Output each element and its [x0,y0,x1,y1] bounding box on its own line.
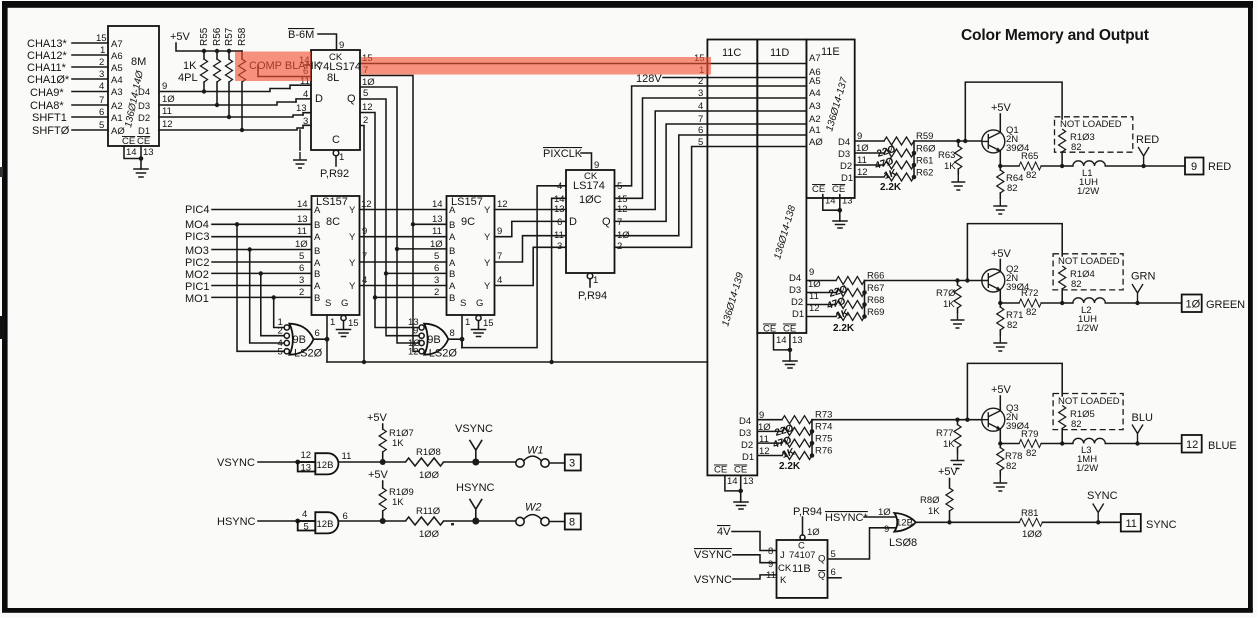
svg-text:1ØØ: 1ØØ [419,470,440,481]
signal SHFT0 [32,120,108,137]
svg-text:11C: 11C [722,47,741,59]
join vertical of R73-R76 [811,420,813,456]
svg-text:1K: 1K [944,161,956,172]
resistor R107 1K [379,428,414,462]
wire 8L Q15 to 11C A7 (COMP BLANK delayed) [360,53,707,64]
svg-text:8M: 8M [131,56,146,68]
wire 10C Q7 up to bus A2 [615,124,708,221]
nand gate 9B-1 LS20 [278,317,323,360]
pullup rail to resistors [204,50,242,52]
connector output 12 BLUE [1182,435,1237,453]
svg-text:9: 9 [884,524,889,535]
svg-text:R73: R73 [815,410,832,421]
resistor R75 1K [782,434,832,448]
svg-text:D3: D3 [838,149,850,160]
svg-text:11: 11 [432,226,442,237]
svg-text:R79: R79 [1021,429,1038,440]
svg-text:R77: R77 [936,428,953,439]
svg-text:3: 3 [303,116,308,127]
emitter wire Q2 [999,290,1001,303]
net VSYNC* into J [694,549,776,563]
svg-text:D1: D1 [792,309,804,320]
resistor R64 82 to ground [993,166,1023,214]
svg-text:1Ø: 1Ø [162,94,175,105]
svg-text:W2: W2 [525,502,542,514]
svg-text:SHFT1: SHFT1 [32,112,67,124]
+5V at R109 [368,469,389,488]
IC 11D column 136014-138 [757,40,806,334]
signal CHA12* [27,45,108,62]
svg-text:R11Ø: R11Ø [416,506,441,517]
svg-text:2: 2 [617,241,622,252]
svg-text:6: 6 [99,107,104,118]
wire MO2 to gate pin2 [261,273,284,335]
svg-text:12B: 12B [317,519,334,530]
svg-text:R56: R56 [212,27,223,46]
10C pin labels left [554,181,565,252]
svg-text:B: B [449,220,455,231]
svg-text:6: 6 [434,263,439,274]
svg-text:R61: R61 [916,156,933,167]
svg-text:B: B [449,293,455,304]
svg-text:136Ø14-139: 136Ø14-139 [720,271,746,328]
signal MO2 [185,263,311,281]
ground at 8M [134,159,148,178]
svg-text:1K: 1K [392,497,404,508]
resistor R74 470 [782,422,832,436]
svg-text:5: 5 [698,137,703,148]
emitter wire Q1 [999,151,1001,166]
svg-text:12: 12 [162,119,173,130]
A labels inside 11E [809,53,823,148]
net HSYNC* [825,512,895,524]
svg-text:HSYNC*: HSYNC* [825,512,869,524]
ground at 11E CE [833,210,847,228]
svg-text:1K: 1K [943,439,955,450]
IC U8L 74LS174 body [311,50,361,150]
svg-text:B: B [449,246,455,257]
base wire to Q2 [865,280,982,282]
svg-text:12: 12 [1186,439,1198,451]
svg-text:A5: A5 [111,63,123,74]
signal PIC1 [185,275,311,293]
jumper W2 [516,502,565,526]
svg-text:CE: CE [714,465,727,476]
wire 11B Q to LS08 pin 9 [828,528,896,559]
svg-text:3: 3 [698,88,703,99]
svg-text:4: 4 [497,275,502,286]
svg-text:13: 13 [301,463,312,474]
svg-text:2.2K: 2.2K [779,461,801,472]
svg-text:S: S [460,298,466,309]
svg-text:11E: 11E [821,46,840,58]
svg-text:6: 6 [299,263,304,274]
svg-text:8C: 8C [326,216,340,228]
9C G pin 15 [476,315,494,329]
svg-text:3: 3 [434,275,439,286]
IC U8M body 136014-140 [108,26,159,147]
resistor R65 82 [1000,151,1062,181]
svg-text:4: 4 [302,509,307,520]
resistor R78 82 to ground [993,444,1022,492]
svg-text:8: 8 [569,517,575,529]
sheet border frame [2,1,1253,8]
signal MO3 [185,239,311,257]
svg-text:Y: Y [484,258,491,269]
svg-text:CHA9*: CHA9* [30,87,64,99]
svg-text:13: 13 [432,214,443,225]
svg-text:LS157: LS157 [451,196,483,208]
svg-text:1/2W: 1/2W [1077,186,1099,197]
svg-text:CE: CE [812,184,825,195]
svg-text:B: B [314,269,320,280]
resistor R76 2.2K [782,446,832,460]
svg-text:R69: R69 [867,307,884,318]
resistor R56 [212,27,223,107]
svg-text:B: B [314,220,320,231]
resistor R58 [237,27,248,132]
svg-text:82: 82 [1007,320,1018,331]
svg-text:A3: A3 [111,87,123,98]
svg-text:4: 4 [698,101,703,112]
svg-text:14: 14 [297,199,308,210]
svg-text:A1: A1 [111,113,123,124]
svg-text:D4: D4 [739,416,751,427]
ground at 11C CE [734,491,748,509]
connector output 11 SYNC [1121,514,1177,532]
signal PIC2 [185,251,311,269]
svg-text:NOT LOADED: NOT LOADED [1060,119,1122,130]
svg-text:14: 14 [825,196,836,207]
svg-text:A6: A6 [111,51,123,62]
resistor R80 1K [920,488,953,524]
wire 11E D4 row [855,140,884,142]
connector output 10 GREEN [1182,295,1245,313]
svg-text:R75: R75 [815,434,832,445]
svg-text:A: A [314,258,321,269]
wire 8L Q7 vert to gate2 pin12 [413,224,419,351]
svg-text:4: 4 [303,89,308,100]
net VSYNC into K [694,574,776,586]
wire 8C Y12 to 9C A14 [360,199,447,210]
svg-text:D3: D3 [138,101,150,112]
svg-text:R68: R68 [867,295,884,306]
svg-text:1K: 1K [928,506,940,517]
svg-text:R6Ø: R6Ø [916,144,936,155]
svg-text:Y: Y [349,281,356,292]
scan mark left edge small [0,167,3,177]
resistor R71 82 to ground [993,303,1023,351]
wire 8L Q12 down [360,102,375,297]
resistor R61 1K [884,156,933,170]
svg-text:SYNC: SYNC [1087,490,1118,502]
emitter wire Q3 [999,429,1001,443]
svg-text:1Ø: 1Ø [295,239,308,250]
svg-text:W1: W1 [527,445,544,457]
svg-text:D: D [569,216,577,228]
svg-text:VSYNC: VSYNC [694,574,732,586]
svg-text:BLU: BLU [1132,412,1153,424]
gate LS08 output wire to sync line [916,521,1020,523]
resistor R66 220 [836,271,884,285]
svg-text:8: 8 [450,328,455,339]
svg-text:Color Memory and Output: Color Memory and Output [961,27,1149,44]
svg-text:9: 9 [339,40,344,51]
svg-text:RED: RED [1208,161,1231,173]
wire 11C D3 row [757,430,782,432]
svg-text:MO4: MO4 [185,219,209,231]
9C S pin 1 [462,315,470,348]
svg-text:R62: R62 [916,168,933,179]
svg-text:1: 1 [593,275,598,286]
svg-text:2: 2 [434,287,439,298]
IC U11B 74107 flip-flop [766,540,836,598]
wire 8M D3 into 8L pin 4 [296,89,311,102]
transistor Q1 2N3904 [982,125,1029,154]
svg-text:1: 1 [339,152,344,163]
wire MO3 to gate pin4 [250,250,285,344]
svg-text:3: 3 [299,275,304,286]
resistor R72 82 [1000,288,1062,318]
svg-text:Y: Y [484,205,491,216]
svg-text:PIC3: PIC3 [185,231,209,243]
connector output 9 RED [1185,158,1231,175]
wire 10C Q10 up to bus A1 [615,135,708,236]
svg-text:7: 7 [99,95,104,106]
svg-text:NOT LOADED: NOT LOADED [1058,256,1120,267]
svg-text:11D: 11D [770,47,789,59]
wire MO1 to gate pin1 [274,297,285,327]
svg-text:1Ø: 1Ø [362,77,375,88]
svg-text:9: 9 [594,160,599,171]
wire 11D D4 row [806,280,836,282]
svg-text:R55: R55 [199,27,210,46]
svg-text:9C: 9C [461,216,475,228]
svg-text:4PL: 4PL [178,72,198,84]
label P,R94 at 11B [793,506,822,540]
svg-text:S: S [325,298,331,309]
svg-text:Q: Q [602,216,611,228]
svg-text:MO3: MO3 [185,245,209,257]
10C clock pin 1 circle [587,273,598,287]
IC U9C LS157 body [447,196,495,315]
svg-text:13: 13 [297,214,308,225]
svg-text:4: 4 [557,181,562,192]
svg-text:B: B [314,293,320,304]
+5V at Q2 [991,248,1012,272]
svg-text:Q: Q [818,570,825,581]
svg-text:A2: A2 [809,114,821,125]
resistor R62 2.2K [884,168,933,182]
svg-text:2.2K: 2.2K [880,182,902,193]
svg-text:+5V: +5V [991,248,1012,260]
svg-text:11: 11 [162,106,172,117]
svg-text:3: 3 [569,458,575,470]
11E CE pins [812,184,853,213]
svg-text:+5V: +5V [938,466,959,478]
base wire to Q1 [914,140,982,142]
svg-text:1/2W: 1/2W [1076,463,1098,474]
wire gate 9B-1 output to 8C S [314,339,328,362]
testpoint SYNC [1087,490,1118,525]
8C G pin 15 [341,315,359,329]
signal CHA8* [30,95,108,112]
svg-text:13: 13 [743,476,754,487]
svg-text:HSYNC: HSYNC [456,482,495,494]
wire select line up to 10C pin14 [552,198,566,362]
nand gate 9B-2 LS20 [408,317,457,360]
signal CHA10* [27,69,108,86]
svg-text:+5V: +5V [367,412,388,424]
10C pin labels right [617,181,630,252]
svg-text:1: 1 [465,317,470,328]
svg-text:14: 14 [432,199,443,210]
address lines across 11C 11D to 11E [707,64,806,147]
svg-text:82: 82 [1026,307,1037,318]
svg-text:VSYNC: VSYNC [217,457,255,469]
svg-text:C: C [332,134,340,146]
svg-text:+5V: +5V [991,384,1012,396]
svg-text:Q: Q [347,93,356,105]
wire 8M D2 into 8L pin 13 [296,103,311,115]
ground at 8C G [337,330,351,337]
wire 8L Q5 vert to gate2 pin9 [386,273,419,335]
wire 8M D3 [159,102,296,105]
svg-text:5: 5 [299,251,304,262]
svg-text:2.2K: 2.2K [833,323,855,334]
not loaded resistor R103 82 [1055,117,1133,166]
resistor R109 1K [379,487,414,521]
11E D outputs [838,131,869,184]
stub 8L Q12 into 9C B2 [373,287,447,300]
svg-text:SHFTØ: SHFTØ [32,125,70,137]
svg-text:6: 6 [315,328,320,339]
+5V supply label [170,31,204,51]
svg-text:B-6M: B-6M [288,29,314,41]
+5V at Q3 [991,384,1012,411]
svg-text:82: 82 [1007,183,1018,194]
signal CHA9* [30,81,108,99]
svg-text:A7: A7 [809,53,821,64]
wire 9C Y7 to 10C pin11 [495,236,567,262]
svg-text:CHA13*: CHA13* [27,38,67,50]
svg-text:82: 82 [1006,461,1017,472]
svg-text:Y: Y [484,232,491,243]
resistor R60 470 [884,144,936,158]
svg-text:+5V: +5V [991,102,1012,114]
wire 10C Q5 up to bus A5 [615,86,708,186]
svg-text:PIC2: PIC2 [185,257,209,269]
svg-text:2: 2 [363,115,368,126]
svg-text:14: 14 [727,476,738,487]
svg-text:D4: D4 [138,87,150,98]
svg-text:RED: RED [1136,134,1159,146]
IC 11E column 136014-137 [806,40,854,199]
svg-text:K: K [780,575,787,586]
svg-text:LS157: LS157 [316,196,348,208]
svg-text:R1Ø8: R1Ø8 [416,447,441,458]
svg-text:R58: R58 [237,27,248,46]
svg-text:4: 4 [99,81,104,92]
ground at 8L pin3 wire [293,130,307,168]
svg-text:3: 3 [557,241,562,252]
svg-text:R8Ø: R8Ø [920,495,940,506]
svg-text:9: 9 [1191,161,1197,173]
svg-text:SYNC: SYNC [1146,519,1177,531]
svg-text:8: 8 [768,546,773,557]
svg-text:D3: D3 [789,285,801,296]
svg-text:Y: Y [484,281,491,292]
svg-text:9: 9 [497,226,502,237]
svg-text:9: 9 [362,226,367,237]
net B-6M [288,29,344,51]
svg-text:A5: A5 [809,76,821,87]
svg-text:MO2: MO2 [185,269,209,281]
svg-text:CE: CE [832,184,845,195]
svg-text:D2: D2 [741,440,753,451]
and gate 12B LS08 [878,507,917,549]
svg-text:D1: D1 [841,173,853,184]
highlighter band left (COMP BLANK) [235,52,311,82]
svg-text:D2: D2 [791,297,803,308]
svg-text:128V: 128V [636,73,662,85]
svg-text:1ØØ: 1ØØ [1022,529,1043,540]
svg-text:1: 1 [330,317,335,328]
stub 8L Q7 into 9C B13 [411,214,447,227]
svg-text:A: A [449,258,456,269]
svg-text:12B: 12B [896,518,913,529]
svg-text:7: 7 [497,251,502,262]
svg-text:1K: 1K [183,60,197,72]
signal SHFT1 [32,107,108,124]
wire 8L Q12 vert to gate2 pin13 [375,297,419,327]
svg-text:6: 6 [831,567,836,578]
wire 9C Y9 to 10C pin6 [495,221,567,236]
svg-text:9: 9 [162,81,167,92]
IC 11C/11D/11E color memory block [707,40,854,476]
svg-text:1K: 1K [392,438,404,449]
svg-text:82: 82 [1071,279,1082,290]
wire 8M D4 into 8L pin 11 [290,76,311,89]
net COMP BLANK [249,55,322,72]
svg-text:R65: R65 [1021,151,1038,162]
svg-text:R74: R74 [815,422,832,433]
inductor L3 1MH 1/2W [1062,438,1182,474]
resistor R81 100 [1019,508,1121,540]
scan mark left edge [0,316,5,339]
svg-text:A7: A7 [111,39,123,50]
svg-text:GREEN: GREEN [1206,299,1245,311]
wire 8L Q2 down [360,115,368,362]
inductor L2 1UH 1/2W [1062,298,1182,334]
svg-text:LS2Ø: LS2Ø [294,348,323,360]
svg-text:D: D [315,93,323,105]
svg-text:6: 6 [557,217,562,228]
svg-text:VSYNC: VSYNC [455,423,493,435]
net 128V to bus A6 [636,73,707,85]
resistor R57 [224,27,235,119]
svg-text:Y: Y [349,232,356,243]
svg-text:7: 7 [617,217,622,228]
testpoint RED [1136,134,1159,168]
svg-text:CHA8*: CHA8* [30,100,64,112]
wire 11E D3 row [855,152,884,154]
svg-text:2: 2 [99,57,104,68]
wire into 8L pin 6 [258,65,311,77]
wire 11E D1 row [855,176,884,178]
testpoint HSYNC [456,482,495,525]
8M CE pins 14 13 [124,146,154,161]
